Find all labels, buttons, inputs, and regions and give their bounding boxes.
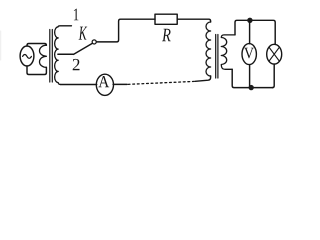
junction dot top [247, 18, 252, 23]
transformer T2 core [216, 35, 218, 79]
junction dot bottom [249, 85, 254, 90]
wire V branch top [249, 20, 251, 43]
label 1 [74, 9, 79, 21]
transformer T2 primary coil [206, 22, 211, 76]
lamp cross [269, 47, 279, 61]
resistor R box [155, 14, 177, 24]
switch K blade [74, 43, 93, 54]
wire source top [27, 44, 46, 47]
ammeter label A [98, 76, 109, 87]
voltmeter V circle [242, 44, 256, 65]
transformer T2 secondary coil [221, 35, 235, 69]
dashed wire to ammeter [127, 81, 194, 84]
transformer T1 secondary coil [55, 26, 72, 85]
wire ammeter left to T1 secondary bottom [61, 84, 97, 86]
wire resistor to T2 [177, 19, 210, 22]
wire lamp branch bottom [272, 64, 274, 88]
voltmeter label V [244, 48, 254, 59]
switch K contact circle [92, 40, 96, 44]
AC sine symbol [23, 55, 32, 59]
wire V branch bottom [249, 65, 251, 88]
transformer T1 core [50, 30, 53, 83]
wire switch to top rail [96, 19, 155, 42]
label 2 [73, 59, 80, 70]
bottom rail right [232, 69, 273, 87]
label K [79, 27, 88, 40]
left edge scan artifact [0, 31, 2, 60]
terminal 2 stub [58, 53, 74, 55]
lamp L1 circle [267, 44, 282, 64]
wire source bottom [27, 66, 46, 75]
AC source G1 [20, 46, 34, 66]
wire T2 primary bottom [195, 76, 210, 81]
wire T2 secondary top to rail [235, 20, 275, 44]
wire dashed end to ammeter [113, 83, 127, 85]
label R [162, 29, 171, 41]
transformer T1 primary coil [40, 45, 47, 67]
ammeter A circle [96, 74, 113, 95]
